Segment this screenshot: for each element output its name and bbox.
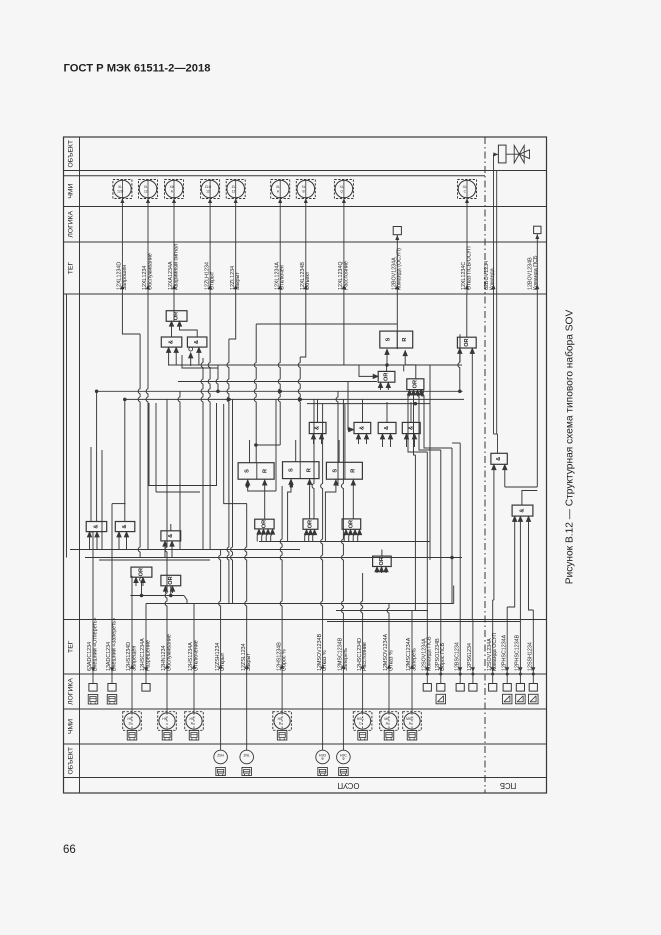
band line y=709	[64, 708, 547, 710]
signal wire 12ZSL1234	[246, 620, 248, 751]
signal wire 12MSC1234B	[342, 620, 344, 751]
gate OR U16	[161, 575, 181, 586]
svg-text:&: &	[93, 525, 99, 529]
logic square 63ADC1234	[89, 684, 97, 692]
device icon 13ADC1234	[107, 695, 117, 705]
svg-text:Закрыт: Закрыт	[235, 272, 241, 290]
logic square 12SOV1234A	[423, 684, 431, 692]
svg-text:Команда: Команда	[489, 268, 495, 290]
signal wire to indicator 8	[343, 197, 345, 294]
field device 12ZSH1234	[214, 750, 228, 764]
svg-text:Ф: Ф	[342, 757, 345, 761]
svg-text:ОБЪЕКТ: ОБЪЕКТ	[68, 140, 75, 168]
device icon 12MSOV1234A	[384, 731, 394, 741]
svg-text:R: R	[307, 468, 313, 472]
logic square 12HSC1234A	[142, 684, 150, 692]
gate AND U8	[309, 422, 326, 433]
signal wire 12HS1234A	[193, 620, 195, 713]
svg-text:ОСУП: ОСУП	[338, 781, 360, 790]
svg-text:OR: OR	[384, 373, 390, 381]
svg-text:12D: 12D	[117, 189, 124, 193]
gate AND U13	[115, 522, 135, 532]
gate OR U5	[378, 371, 395, 382]
field device 12MSC1234B	[337, 750, 351, 764]
wire feeding SOV	[494, 153, 498, 155]
logic I/O square (ОСУП command)	[393, 227, 401, 235]
device icon 12HS1234D	[127, 731, 137, 741]
HMI station 12HS1234D	[123, 712, 142, 731]
diagram outer frame	[64, 137, 547, 793]
svg-text:12: 12	[206, 189, 210, 193]
gate OR U21	[303, 519, 318, 529]
gate AND U14	[161, 531, 181, 541]
band line y=170.5	[64, 170, 547, 172]
HMI indicator lamp 9 (top)	[458, 180, 477, 199]
band line y=674	[64, 673, 547, 675]
svg-text:OR: OR	[138, 568, 144, 576]
svg-text:Ф: Ф	[321, 757, 324, 761]
device icon 12MSOV1234B	[318, 768, 328, 776]
gate AND U3	[187, 337, 207, 351]
svg-text:R: R	[402, 338, 408, 342]
svg-text:R: R	[262, 469, 268, 473]
gate OR U15	[131, 567, 152, 577]
latch S/R U17	[238, 463, 274, 480]
logic square 12SOV1234A	[489, 684, 497, 692]
logic square 12SSH1234	[529, 684, 537, 692]
device icon 12HS1234A	[189, 731, 199, 741]
device icon 12HS1234B	[277, 731, 287, 741]
device icon 12HN1234	[162, 731, 172, 741]
logic icon 12PSO1234B	[436, 694, 446, 704]
svg-text:OR: OR	[168, 576, 174, 584]
HMI indicator lamp 4 (top)	[201, 180, 220, 199]
band line y=206.5	[64, 206, 547, 208]
svg-text:Открыт: Открыт	[210, 271, 216, 290]
latch S/R U4	[380, 331, 413, 348]
band line y=175.7	[64, 175, 486, 177]
svg-text:12PHSC1234B: 12PHSC1234B	[515, 634, 521, 671]
gate AND U10	[378, 422, 396, 433]
signal wire to indicator 6	[279, 197, 281, 294]
label column divider	[79, 137, 81, 793]
svg-text:Обслуживание: Обслуживание	[147, 253, 153, 290]
device icon 63ADC1234	[88, 695, 98, 705]
band line y=294	[64, 293, 547, 295]
signal wire to indicator 7	[305, 197, 307, 294]
signal wire 12HS1234B	[281, 620, 283, 713]
gate AND U9	[354, 422, 371, 433]
svg-text:&: &	[496, 457, 502, 461]
HMI station 12HN1234	[158, 712, 177, 731]
svg-text:12: 12	[144, 189, 148, 193]
svg-text:S: S	[288, 468, 294, 472]
svg-text:Отказ ПСБ/ОСУП: Отказ ПСБ/ОСУП	[466, 246, 472, 290]
svg-text:&: &	[315, 426, 321, 430]
gate AND U25	[512, 505, 533, 516]
signal wire 12MSOV1234B	[322, 620, 324, 751]
wire net	[67, 294, 538, 622]
inverted output of U15	[140, 578, 144, 582]
svg-text:OR: OR	[348, 520, 354, 528]
svg-text:S: S	[386, 337, 392, 341]
svg-text:Расстояние: Расстояние	[343, 261, 349, 290]
HMI indicator lamp 8 (top)	[334, 180, 353, 199]
wire to ПСБ command square	[536, 234, 538, 294]
HMI station 12HSC1234D	[353, 712, 372, 731]
svg-text:OR: OR	[261, 520, 267, 528]
HMI indicator lamp 2 (top)	[139, 180, 158, 199]
signal wire to indicator 2	[147, 197, 149, 294]
svg-text:ЛОГИКА: ЛОГИКА	[68, 210, 75, 237]
gate OR U23	[373, 556, 392, 566]
logic icon 12SSH1234	[529, 694, 539, 704]
HMI indicator lamp 7 (top)	[296, 180, 315, 199]
band line y=242	[64, 241, 547, 243]
logic icon 12PHSC1234A	[502, 694, 512, 704]
signal wire 12MSC1234A	[411, 620, 413, 713]
logic square 12BSC1234	[456, 684, 464, 692]
svg-text:ТЕГ: ТЕГ	[68, 262, 75, 275]
logic square 12PHSC1234A	[503, 684, 511, 692]
svg-text:Команда (ОСУП): Команда (ОСУП)	[397, 248, 403, 290]
SOV valve actuator body	[498, 145, 506, 163]
HMI indicator lamp 5 (top)	[226, 180, 245, 199]
signal wire 12HN1234	[166, 620, 168, 713]
svg-text:OR: OR	[307, 520, 313, 528]
svg-text:ZSH: ZSH	[217, 753, 224, 757]
signal wire to indicator 4	[209, 197, 211, 294]
gate AND U24	[491, 453, 507, 464]
svg-text:12PS61234: 12PS61234	[467, 643, 473, 671]
field device 12MSOV1234B	[316, 750, 330, 764]
band line y=619.5	[64, 619, 547, 621]
gate OR U7	[457, 337, 476, 348]
device icon 12MSC1234A	[407, 731, 417, 741]
svg-text:OR: OR	[174, 312, 180, 320]
svg-text:ОБЪЕКТ: ОБЪЕКТ	[68, 747, 75, 775]
signal wire to indicator 3	[173, 197, 175, 294]
zone divider OSUP/PSB (dash-dot)	[484, 137, 486, 793]
gate OR U6	[407, 379, 424, 394]
svg-text:Внешний «Отпереть»: Внешний «Отпереть»	[91, 617, 98, 671]
svg-text:Q: Q	[340, 189, 343, 193]
HMI station 12MSC1234A	[403, 712, 422, 731]
svg-text:OR: OR	[412, 380, 418, 388]
svg-text:OR: OR	[464, 338, 470, 346]
svg-text:&: &	[194, 340, 200, 344]
logic square 12PSO1234B	[437, 684, 445, 692]
svg-text:&: &	[520, 509, 526, 513]
svg-text:Аварийный сигнал: Аварийный сигнал	[172, 244, 179, 290]
HMI indicator lamp 1 (top)	[113, 180, 132, 199]
band line y=777.5	[64, 777, 547, 779]
svg-text:Объект: Объект	[305, 271, 311, 290]
HMI indicator lamp 6 (top)	[271, 180, 290, 199]
device icon 12ZSL1234	[242, 768, 252, 776]
svg-text:Отключен: Отключен	[280, 265, 286, 290]
signal wire 12HS1234D	[131, 620, 133, 713]
latch S/R U18	[283, 462, 320, 479]
gate OR U22	[342, 519, 361, 529]
svg-text:ТЕГ: ТЕГ	[68, 640, 75, 653]
logic square 12PS61234	[469, 684, 477, 692]
svg-text:&: &	[169, 340, 175, 344]
signal wire 12MSOV1234A	[388, 620, 390, 713]
logic I/O square (ПСБ command)	[534, 226, 541, 233]
svg-text:Команда ПСБ: Команда ПСБ	[533, 255, 539, 290]
signal wire to indicator 9	[466, 197, 468, 294]
svg-text:&: &	[122, 525, 128, 529]
svg-text:12: 12	[232, 189, 236, 193]
device icon 12HSC1234D	[358, 731, 368, 741]
gate AND U11	[402, 422, 420, 433]
HMI station 12HS1234A	[185, 712, 204, 731]
signal wire to indicator 1	[121, 197, 123, 294]
svg-text:Рисунок В.12 — Структурная схе: Рисунок В.12 — Структурная схема типовог…	[564, 310, 576, 585]
svg-text:12BSC1234: 12BSC1234	[454, 642, 460, 671]
device icon 12ZSH1234	[216, 768, 226, 776]
signal wire to indicator 5	[235, 197, 237, 294]
SOV valve symbol	[506, 145, 530, 163]
signal wire 12HSC1234D	[362, 620, 364, 713]
signal wire 12ZSH1234	[220, 620, 222, 751]
svg-text:ЧМИ: ЧМИ	[68, 719, 75, 734]
svg-text:66: 66	[63, 844, 76, 856]
HMI station 12MSOV1234A	[380, 712, 399, 731]
svg-text:&: &	[168, 534, 174, 538]
svg-text:ГОСТ Р МЭК 61511-2—2018: ГОСТ Р МЭК 61511-2—2018	[64, 62, 211, 74]
HMI station 12HS1234B	[273, 712, 292, 731]
svg-text:12SSH1234: 12SSH1234	[528, 642, 534, 671]
svg-text:&: &	[359, 426, 365, 430]
svg-text:ZNL: ZNL	[243, 753, 250, 757]
svg-text:S: S	[244, 469, 250, 473]
gate OR U20	[255, 519, 274, 529]
svg-text:R: R	[351, 469, 357, 473]
svg-text:&: &	[384, 426, 390, 430]
svg-text:ПСБ: ПСБ	[500, 781, 516, 790]
logic square 13ADC1234	[108, 684, 116, 692]
logic icon 12PHSC1234B	[516, 694, 526, 704]
wire to ОСУП command square	[396, 235, 398, 294]
gate AND U12	[86, 522, 107, 532]
svg-text:ЧМИ: ЧМИ	[68, 183, 75, 198]
svg-text:12PHSC1234A: 12PHSC1234A	[501, 634, 507, 671]
svg-text:Внешний «Запереть»: Внешний «Запереть»	[110, 618, 117, 671]
latch S/R U19	[326, 462, 362, 479]
device icon 12MSC1234B	[339, 768, 349, 776]
gate AND U2	[161, 337, 182, 347]
band line y=744	[64, 743, 547, 745]
HMI indicator lamp 3 (top)	[165, 180, 184, 199]
logic square 12PHSC1234B	[516, 684, 524, 692]
svg-text:Запрошен: Запрошен	[122, 265, 128, 290]
field device 12ZSL1234	[240, 750, 254, 764]
gate OR (alarm collect) U1	[166, 311, 187, 322]
svg-text:ЛОГИКА: ЛОГИКА	[68, 678, 75, 705]
svg-text:OR: OR	[379, 557, 385, 565]
